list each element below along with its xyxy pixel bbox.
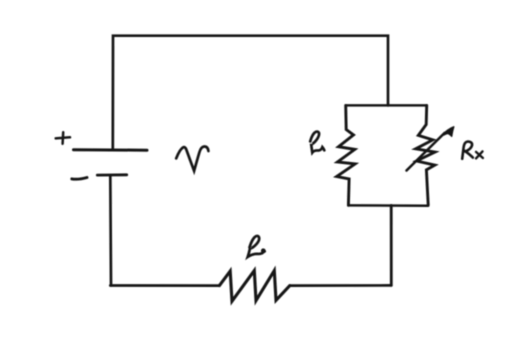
label R (left branch), cursive bbox=[310, 132, 324, 153]
label Rx: x subscript bbox=[476, 151, 483, 158]
label Rx: R bbox=[462, 142, 473, 159]
wire: bottom-right stem up to parallel box bbox=[390, 205, 393, 285]
variable resistor arrowhead (filled) bbox=[442, 127, 454, 137]
label R (bottom resistor), cursive bbox=[248, 236, 265, 257]
battery V: positive plate bbox=[74, 148, 148, 152]
resistor Rx (right branch, variable) with leads bbox=[416, 105, 435, 204]
label V (battery), cursive bbox=[176, 146, 208, 170]
battery plus label bbox=[56, 132, 70, 143]
wire: bottom left segment bbox=[110, 284, 219, 287]
wire: bottom right segment bbox=[290, 284, 392, 287]
battery minus label bbox=[72, 178, 87, 180]
wire: battery negative down to bottom-left corner bbox=[109, 175, 112, 285]
parallel box top horizontal bbox=[346, 104, 427, 107]
wire top loop: left vertical, top horizontal, right stem bbox=[113, 36, 388, 150]
resistor R (bottom) zigzag bbox=[219, 271, 289, 302]
battery V: negative plate bbox=[97, 173, 126, 176]
resistor R (left branch) with leads bbox=[337, 105, 355, 205]
variable resistor arrow shaft bbox=[407, 133, 445, 171]
parallel box bottom horizontal bbox=[348, 204, 428, 207]
